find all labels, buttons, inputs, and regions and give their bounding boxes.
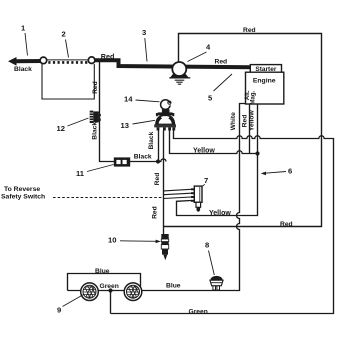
wire: ignition pin2 red drop to switch 7 and fuse bbox=[163, 131, 165, 235]
key 14 bbox=[161, 100, 171, 110]
svg-text:13: 13 bbox=[121, 121, 129, 130]
wire: Yellow from engine magneto down, to switch 7 lower prong bbox=[177, 104, 258, 216]
wire: prong leads to switch 7 bbox=[164, 189, 192, 198]
wire: battery negative lead Black with arrow bbox=[8, 57, 43, 66]
indicator switch 8 bbox=[210, 276, 223, 290]
wire: battery positive cable Red (thick) to starter bbox=[95, 60, 251, 67]
headlight 9 (right) bbox=[124, 283, 142, 301]
engine box bbox=[246, 72, 284, 104]
junction dot lights bbox=[108, 288, 112, 292]
horn 12 bbox=[90, 111, 101, 123]
svg-text:Engine: Engine bbox=[253, 77, 276, 84]
svg-text:Red: Red bbox=[92, 81, 99, 94]
svg-text:Red: Red bbox=[241, 115, 248, 128]
switch 7 (light switch) bbox=[191, 186, 202, 212]
junction dot yellow bus bbox=[255, 151, 259, 155]
svg-text:11: 11 bbox=[76, 169, 85, 178]
svg-text:Red: Red bbox=[280, 221, 293, 228]
svg-text:Yellow: Yellow bbox=[193, 147, 215, 154]
svg-text:12: 12 bbox=[57, 124, 65, 133]
solenoid 4 (ammeter/starter solenoid on battery cable) bbox=[169, 62, 190, 78]
svg-text:Black: Black bbox=[148, 131, 155, 149]
wire: Red from engine alternator down to yellow junction bbox=[249, 104, 251, 154]
svg-text:Safety Switch: Safety Switch bbox=[1, 193, 45, 200]
svg-text:Red: Red bbox=[154, 173, 161, 186]
svg-text:Red: Red bbox=[243, 27, 256, 34]
headlight 9 (left) bbox=[81, 283, 99, 301]
svg-text:Mag.: Mag. bbox=[251, 90, 257, 104]
starter box bbox=[250, 65, 281, 73]
svg-text:10: 10 bbox=[108, 236, 116, 245]
svg-text:Black: Black bbox=[14, 66, 32, 73]
svg-text:2: 2 bbox=[62, 30, 66, 39]
svg-text:9: 9 bbox=[57, 306, 61, 315]
wire: Black vertical from battery cable down past horn to connector bbox=[100, 62, 167, 162]
svg-text:Black: Black bbox=[134, 154, 152, 161]
svg-text:Red: Red bbox=[215, 59, 228, 66]
wire: lights interconnect bbox=[68, 290, 125, 292]
svg-text:5: 5 bbox=[208, 94, 213, 103]
wire: green drop from lights junction bbox=[110, 291, 112, 314]
ground symbol below solenoid bbox=[175, 80, 185, 84]
svg-text:Red: Red bbox=[152, 206, 159, 219]
svg-text:Red: Red bbox=[101, 52, 115, 61]
connector 11 bbox=[114, 157, 130, 166]
svg-text:7: 7 bbox=[204, 176, 208, 185]
svg-text:Blue: Blue bbox=[166, 283, 181, 290]
svg-text:Yellow: Yellow bbox=[249, 110, 256, 132]
svg-text:8: 8 bbox=[205, 241, 209, 250]
wire: Red net from solenoid top around right side down to red bus bbox=[164, 34, 322, 227]
headlight box top Blue run bbox=[68, 274, 141, 291]
svg-text:3: 3 bbox=[142, 28, 146, 37]
svg-text:Green: Green bbox=[100, 283, 119, 290]
svg-text:Black: Black bbox=[92, 122, 99, 140]
svg-text:Green: Green bbox=[189, 308, 208, 315]
ignition switch 13 bbox=[154, 109, 176, 130]
wire: ignition pin4 line to right side (green net top) bbox=[111, 131, 334, 314]
svg-text:To Reverse: To Reverse bbox=[4, 186, 40, 193]
svg-text:4: 4 bbox=[206, 43, 211, 52]
fuse 10 bbox=[161, 234, 168, 260]
svg-text:14: 14 bbox=[124, 95, 133, 104]
wire: White from engine alternator down to headlight Blue wire bbox=[142, 104, 246, 291]
junction dot black run bbox=[156, 159, 160, 163]
wire: ignition pin1 black drop to junction bbox=[158, 131, 160, 162]
svg-text:White: White bbox=[230, 112, 237, 130]
battery B1 bbox=[40, 57, 95, 99]
wire: to reverse safety switch (dashed) bbox=[53, 197, 163, 199]
svg-text:Yellow: Yellow bbox=[209, 210, 231, 217]
svg-text:6: 6 bbox=[288, 167, 292, 176]
svg-text:1: 1 bbox=[21, 24, 26, 33]
svg-text:Blue: Blue bbox=[95, 268, 110, 275]
wire: Yellow-1 from ignition pin3 to yellow junction bbox=[170, 131, 258, 154]
